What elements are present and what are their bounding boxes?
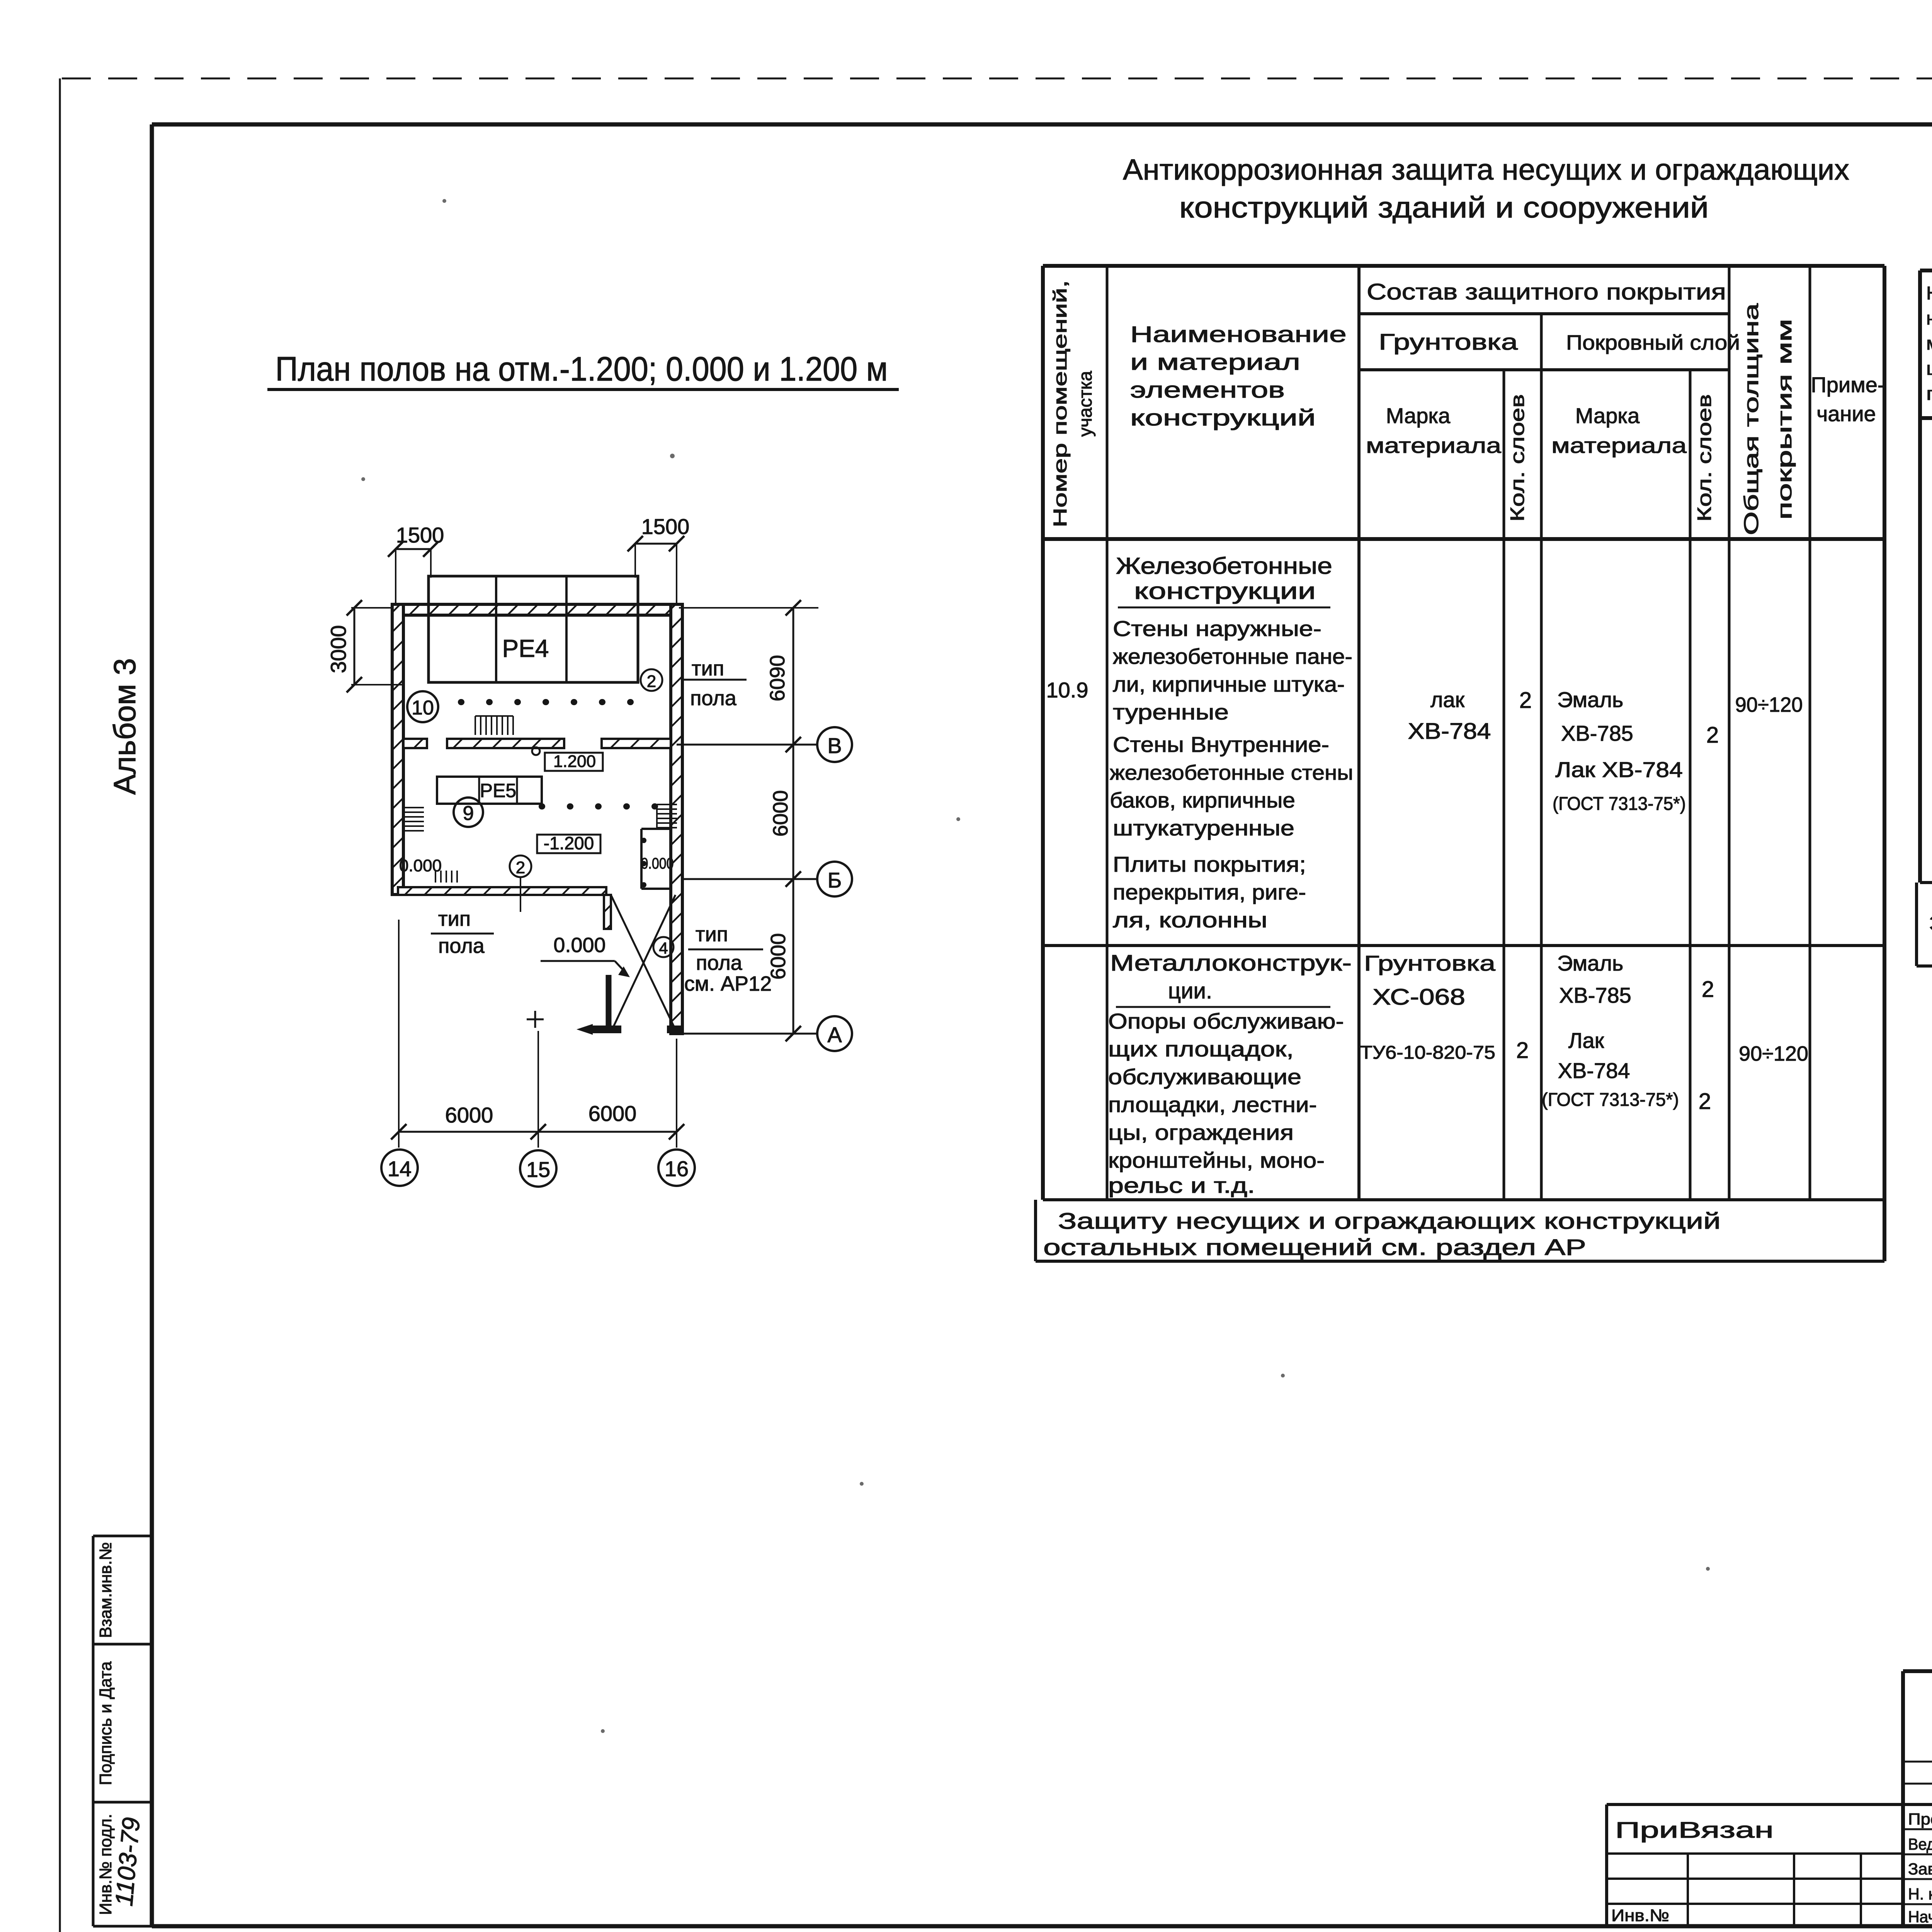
svg-text:2: 2 — [1519, 688, 1532, 713]
dimension 1500 (top right) — [628, 514, 689, 606]
wall: top exterior — [392, 604, 679, 615]
svg-text:1500: 1500 — [641, 514, 690, 539]
svg-text:тип: тип — [696, 923, 728, 946]
level box -1.200 — [537, 833, 600, 853]
svg-text:материала: материала — [1551, 433, 1687, 457]
svg-text:щения по: щения по — [1926, 359, 1932, 379]
svg-text:ХВ-785: ХВ-785 — [1561, 721, 1633, 745]
svg-text:Антикоррозионная защита несу: Антикоррозионная защита несущих и огражд… — [1123, 153, 1849, 186]
svg-text:6090: 6090 — [766, 655, 789, 701]
svg-text:Кол. слоев: Кол. слоев — [1694, 394, 1715, 522]
svg-text:чание: чание — [1816, 401, 1876, 426]
svg-text:элементов: элементов — [1130, 378, 1285, 403]
svg-text:4: 4 — [659, 939, 668, 957]
svg-text:Н. контр.: Н. контр. — [1908, 1885, 1932, 1903]
svg-text:конструкций: конструкций — [1130, 405, 1316, 430]
svg-text:Стены наружные-: Стены наружные- — [1113, 616, 1321, 641]
coating table row 2: наименование металлоконструкции — [1108, 951, 1352, 1197]
explication footer note — [1929, 911, 1932, 964]
svg-text:Состав защитного покрытия: Состав защитного покрытия — [1367, 279, 1726, 304]
svg-text:Нач. отд.: Нач. отд. — [1908, 1908, 1932, 1926]
svg-text:3000: 3000 — [326, 625, 350, 673]
svg-text:железобетонные стены: железобетонные стены — [1110, 761, 1353, 784]
equipment boxes РЕ5 — [437, 777, 542, 804]
svg-text:2: 2 — [647, 672, 656, 691]
coating table header: Общая толщина покрытия мм (rotated) — [1740, 303, 1796, 535]
svg-text:и материал: и материал — [1130, 350, 1300, 375]
svg-text:Металлоконструк-: Металлоконструк- — [1110, 951, 1352, 976]
axis circle 14 — [381, 1150, 418, 1186]
svg-text:Опоры обслуживаю-: Опоры обслуживаю- — [1108, 1009, 1344, 1033]
svg-text:2: 2 — [1706, 723, 1719, 748]
svg-text:План полов на отм.-1.200; 0.00: План полов на отм.-1.200; 0.000 и 1.200 … — [276, 350, 888, 388]
dimension 3000 (left) — [326, 600, 403, 692]
floor type label тип пола см. АР12 — [684, 923, 772, 995]
equipment box РЕ4 — [429, 576, 638, 682]
svg-text:остальных помещений см. раздел: остальных помещений см. раздел АР — [1043, 1235, 1586, 1260]
svg-text:материала: материала — [1366, 433, 1502, 457]
svg-text:6000: 6000 — [588, 1101, 637, 1126]
svg-text:ХВ-784: ХВ-784 — [1558, 1058, 1630, 1083]
svg-text:-1.200: -1.200 — [544, 833, 594, 853]
dimension 1500 (top left) — [388, 523, 444, 606]
svg-text:90÷120: 90÷120 — [1735, 693, 1803, 716]
svg-text:Стены Внутренние-: Стены Внутренние- — [1113, 732, 1329, 757]
dotted line under РЕ4 — [461, 699, 634, 705]
svg-text:штукатуренные: штукатуренные — [1113, 816, 1294, 840]
svg-text:Марка: Марка — [1575, 403, 1640, 428]
svg-text:рельс и т.д.: рельс и т.д. — [1108, 1173, 1255, 1197]
axis line В — [677, 727, 852, 762]
level box 1.200 — [545, 752, 603, 771]
wall: right exterior — [671, 604, 682, 1034]
room number circle 10 — [407, 691, 438, 722]
axis line А — [682, 1016, 852, 1051]
svg-text:Вед. инж.: Вед. инж. — [1908, 1835, 1932, 1853]
signature table labels — [1908, 1810, 1932, 1926]
svg-text:10.9: 10.9 — [1046, 678, 1088, 702]
svg-text:щих площадок,: щих площадок, — [1108, 1037, 1294, 1061]
explication header col1 — [1926, 283, 1932, 404]
svg-text:ли, кирпичные штука-: ли, кирпичные штука- — [1113, 672, 1345, 696]
svg-text:ХС-068: ХС-068 — [1372, 985, 1465, 1010]
svg-text:Наименование: Наименование — [1130, 322, 1347, 347]
svg-text:2: 2 — [1702, 977, 1714, 1002]
stair symbol left — [404, 808, 424, 831]
svg-text:Подпись и Дата: Подпись и Дата — [96, 1661, 115, 1785]
svg-text:лак: лак — [1430, 687, 1465, 712]
svg-text:ХВ-784: ХВ-784 — [1408, 719, 1491, 744]
axis line Б — [682, 862, 852, 896]
floor type mark circle 2 with leader (lower) — [510, 855, 531, 912]
coating table grid — [1036, 266, 1884, 1261]
stair symbol upper — [475, 716, 513, 735]
svg-text:Эмаль: Эмаль — [1557, 951, 1623, 975]
svg-text:см. АР12: см. АР12 — [684, 972, 772, 995]
svg-text:ТУ6-10-820-75: ТУ6-10-820-75 — [1360, 1043, 1495, 1063]
small stair below left 0.000 — [435, 871, 457, 883]
coating table header: column 1 rotated — [1050, 280, 1096, 527]
svg-text:6000: 6000 — [767, 933, 790, 980]
coating table header: Наименование и материал элементов конструкций — [1130, 322, 1347, 430]
svg-text:16: 16 — [665, 1156, 689, 1181]
svg-text:0.000: 0.000 — [641, 855, 674, 872]
svg-text:баков, кирпичные: баков, кирпичные — [1110, 788, 1295, 812]
svg-text:площадки, лестни-: площадки, лестни- — [1108, 1092, 1317, 1117]
svg-text:Б: Б — [828, 868, 842, 892]
svg-text:Провер.: Провер. — [1908, 1810, 1932, 1828]
svg-text:6000: 6000 — [769, 790, 792, 837]
svg-text:Номер помещений,: Номер помещений, — [1050, 280, 1071, 527]
svg-text:Взам.инв.№: Взам.инв.№ — [96, 1542, 115, 1638]
привязан box — [1607, 1804, 1903, 1926]
svg-text:участка: участка — [1075, 371, 1096, 437]
dotted line middle — [542, 803, 655, 810]
wall: interior on axis В, stub at left — [403, 739, 427, 748]
diagonal brace X between axes Б and А — [611, 895, 677, 1032]
outer page border top (dashed) — [62, 78, 1932, 80]
svg-text:Плиты покрытия;: Плиты покрытия; — [1113, 852, 1306, 876]
small column marker under wall В — [532, 747, 540, 755]
svg-text:Грунтовка: Грунтовка — [1379, 330, 1518, 355]
coating table row 1: наименование конструкций — [1110, 553, 1353, 932]
svg-text:ции.: ции. — [1168, 978, 1212, 1003]
svg-text:Зав. гр.: Зав. гр. — [1908, 1860, 1932, 1878]
svg-text:проекту: проекту — [1926, 384, 1932, 404]
svg-text:Покровный слой: Покровный слой — [1566, 331, 1740, 354]
svg-text:Инв.№: Инв.№ — [1611, 1906, 1669, 1925]
svg-text:ПриВязан: ПриВязан — [1615, 1818, 1774, 1843]
svg-text:1.200: 1.200 — [553, 752, 596, 771]
wall: interior on axis В, right segment — [602, 739, 671, 748]
svg-text:ние или но-: ние или но- — [1926, 308, 1932, 329]
svg-text:перекрытия, риге-: перекрытия, риге- — [1113, 880, 1306, 904]
left margin cells box — [93, 1536, 152, 1926]
niche at right wall with 0.000 floor level — [641, 829, 671, 889]
floor type circle 4 — [653, 937, 673, 957]
svg-text:Марка: Марка — [1386, 403, 1451, 428]
svg-text:Защиту несущих и ограждающих к: Защиту несущих и ограждающих конструкций — [1058, 1209, 1721, 1234]
svg-text:2: 2 — [516, 858, 525, 877]
room number circle 9 — [454, 798, 483, 827]
svg-text:14: 14 — [388, 1156, 412, 1181]
svg-text:В: В — [827, 733, 842, 758]
svg-text:Общая толщина: Общая толщина — [1740, 303, 1763, 535]
wall: interior on axis В, middle segment — [447, 739, 564, 748]
svg-text:90÷120: 90÷120 — [1739, 1042, 1808, 1065]
svg-text:2: 2 — [1699, 1089, 1711, 1114]
svg-text:6000: 6000 — [445, 1103, 493, 1127]
svg-text:Грунтовка: Грунтовка — [1364, 951, 1496, 975]
coating table row 1: грунтовка лак ХВ-784 — [1408, 687, 1491, 744]
coating table footer note — [1043, 1209, 1721, 1260]
right dimension chain 6090/6000/6000 — [679, 600, 818, 1041]
svg-text:тип: тип — [438, 907, 471, 930]
stair symbol right — [657, 804, 677, 829]
svg-text:РЕ5: РЕ5 — [480, 780, 517, 801]
svg-text:2: 2 — [1516, 1038, 1529, 1063]
coating table header: Примечание — [1811, 372, 1885, 426]
plan title underline — [267, 388, 899, 391]
bottom dimension chain 6000+6000 — [391, 920, 684, 1148]
svg-text:Железобетонные: Железобетонные — [1116, 553, 1332, 579]
coating table row 2: кол-во слоев 2 и 2 — [1699, 977, 1714, 1114]
coating table row 2: покровный слой — [1542, 951, 1679, 1110]
svg-text:Альбом 3: Альбом 3 — [107, 658, 142, 795]
svg-text:тип: тип — [692, 657, 724, 680]
svg-text:9: 9 — [463, 802, 474, 825]
coating table row 1: покровный слой — [1553, 687, 1686, 814]
svg-text:пола: пола — [696, 951, 743, 975]
svg-text:мер поме-: мер поме- — [1926, 333, 1932, 354]
outer page border left — [59, 78, 61, 1932]
svg-text:15: 15 — [526, 1157, 550, 1182]
wall: left exterior — [392, 604, 403, 895]
coating table row 2: грунтовка ХС-068 — [1360, 951, 1496, 1063]
explication table grid — [1917, 270, 1932, 966]
svg-text:обслуживающие: обслуживающие — [1108, 1065, 1301, 1089]
svg-text:железобетонные пане-: железобетонные пане- — [1113, 644, 1352, 668]
svg-text:А: А — [827, 1022, 842, 1047]
svg-text:10: 10 — [412, 697, 434, 719]
svg-text:туренные: туренные — [1113, 700, 1229, 724]
svg-text:Наименова: Наименова — [1926, 283, 1932, 304]
coating table header: Марка материала (грунтовка) — [1366, 403, 1502, 457]
svg-text:ХВ-785: ХВ-785 — [1559, 983, 1631, 1007]
svg-text:покрытия мм: покрытия мм — [1774, 319, 1796, 520]
axis circle 15 — [520, 1150, 556, 1187]
svg-text:Лак: Лак — [1568, 1028, 1604, 1053]
svg-text:РЕ4: РЕ4 — [502, 634, 549, 662]
svg-text:Эмаль: Эмаль — [1557, 687, 1623, 712]
svg-text:кронштейны, моно-: кронштейны, моно- — [1108, 1148, 1325, 1172]
wall: short return below axis Б — [604, 895, 611, 929]
floor type mark: тип пола with circle 2 (upper right) — [641, 657, 747, 710]
svg-text:(ГОСТ 7313-75*): (ГОСТ 7313-75*) — [1542, 1090, 1679, 1110]
svg-text:пола: пола — [438, 934, 485, 957]
axis circle 16 — [658, 1150, 695, 1186]
column with base (I-beam) — [577, 975, 621, 1035]
floor type label тип пола (lower left) — [431, 907, 494, 957]
centre cross marker — [527, 1011, 544, 1028]
svg-text:Кол. слоев: Кол. слоев — [1507, 394, 1528, 522]
svg-text:0.000: 0.000 — [553, 934, 605, 957]
svg-text:ля, колонны: ля, колонны — [1113, 908, 1267, 932]
coating table header: Марка материала (покровный) — [1551, 403, 1687, 457]
svg-text:конструкций зданий и сооруж: конструкций зданий и сооружений — [1179, 191, 1709, 224]
wall: interior on axis Б — [398, 887, 606, 895]
level mark 0.000 with arrow (center) — [541, 934, 630, 977]
svg-text:Лак ХВ-784: Лак ХВ-784 — [1555, 757, 1683, 782]
scan specks — [361, 125, 1932, 1733]
svg-text:Экспликацию полов остальных: Экспликацию полов остальных помещений- — [1929, 911, 1932, 936]
svg-text:Приме-: Приме- — [1811, 372, 1885, 397]
svg-text:(ГОСТ 7313-75*): (ГОСТ 7313-75*) — [1553, 794, 1686, 814]
title block grid — [1607, 1671, 1932, 1926]
svg-text:пола: пола — [690, 687, 737, 710]
svg-text:конструкции: конструкции — [1134, 578, 1316, 604]
svg-text:цы, ограждения: цы, ограждения — [1108, 1120, 1294, 1145]
base plate at axis 16 — [667, 1026, 683, 1033]
